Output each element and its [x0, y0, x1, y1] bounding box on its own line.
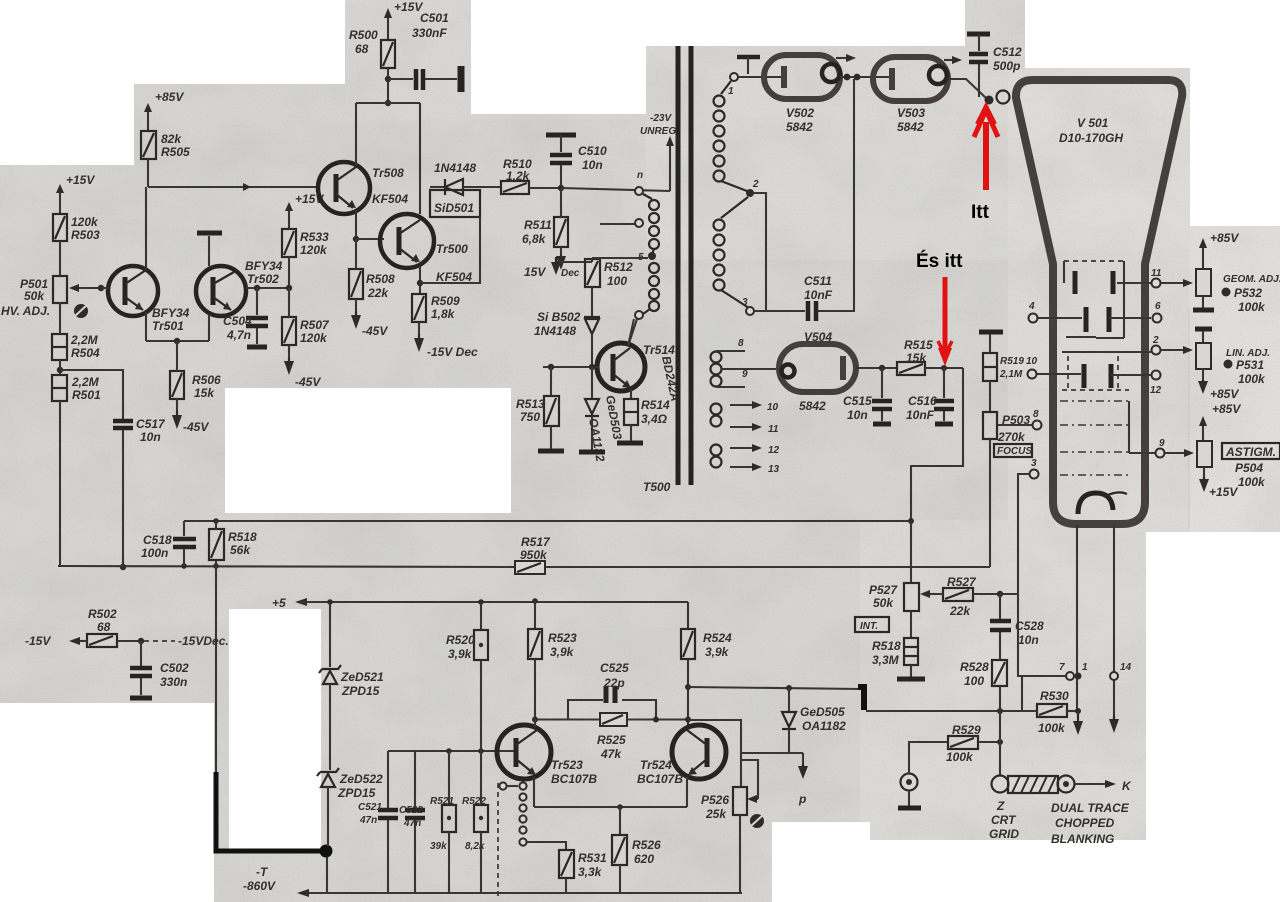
- svg-text:10nF: 10nF: [906, 408, 935, 422]
- node branch to C517: [57, 367, 123, 419]
- potentiometer P501: [1, 276, 101, 318]
- labels Z CRT GRID: [989, 799, 1019, 841]
- svg-text:C512: C512: [993, 45, 1022, 59]
- winding 8/9: [711, 338, 780, 387]
- SiD501 label box and loop wire: [420, 190, 480, 283]
- pin 1 node: [1075, 662, 1089, 680]
- winding right lower: [714, 197, 750, 308]
- wire V504 output: [856, 367, 897, 369]
- svg-text:-15V: -15V: [25, 634, 51, 648]
- svg-text:P527: P527: [869, 583, 898, 597]
- node and feed wires to Tr508/Tr500: [356, 100, 420, 214]
- capacitor C517: [113, 417, 166, 570]
- svg-text:R517: R517: [521, 535, 551, 549]
- svg-text:C521: C521: [358, 802, 382, 813]
- emitter bus + resistor R526: [534, 804, 687, 893]
- svg-text:R529: R529: [952, 723, 981, 737]
- svg-text:ZeD521: ZeD521: [340, 670, 384, 684]
- resistor R502 68: [25, 607, 229, 648]
- svg-text:R525: R525: [597, 733, 626, 747]
- potentiometer P531: [1196, 343, 1270, 401]
- svg-text:R514: R514: [641, 398, 670, 412]
- svg-text:22p: 22p: [603, 676, 625, 690]
- svg-text:Tr501: Tr501: [152, 319, 184, 333]
- transformer T500 core: [643, 46, 691, 494]
- svg-text:P503: P503: [1002, 413, 1030, 427]
- svg-text:68: 68: [97, 620, 111, 634]
- resistor R512: [585, 259, 633, 317]
- svg-text:39k: 39k: [430, 841, 447, 852]
- base rail of multivibrator: [388, 748, 516, 754]
- resistor R520: [446, 599, 488, 805]
- svg-text:10: 10: [1026, 356, 1038, 367]
- svg-text:3: 3: [742, 297, 748, 308]
- focus electrodes dash-dot: [1060, 401, 1129, 475]
- capacitor between P532/P531: [1193, 296, 1214, 343]
- svg-text:SiD501: SiD501: [434, 201, 474, 215]
- svg-text:47k: 47k: [600, 747, 622, 761]
- svg-text:V 501: V 501: [1077, 116, 1109, 130]
- winding tap 2nd: [600, 219, 643, 227]
- svg-text:Tr523: Tr523: [551, 758, 583, 772]
- svg-text:R523: R523: [548, 631, 577, 645]
- svg-text:10n: 10n: [582, 158, 603, 172]
- svg-text:13: 13: [768, 464, 780, 475]
- svg-text:2,2M: 2,2M: [71, 375, 100, 389]
- input terminal + resistor R529: [898, 723, 1003, 808]
- bottom bus -860V: [297, 889, 742, 897]
- svg-text:11: 11: [768, 424, 779, 435]
- svg-text:22k: 22k: [949, 604, 971, 618]
- wire +85V bus: [148, 183, 318, 191]
- resistor R527 22k: [936, 575, 1000, 618]
- pin 2 wire: [1062, 335, 1193, 355]
- svg-text:12: 12: [768, 445, 780, 456]
- svg-text:9: 9: [1159, 438, 1165, 449]
- svg-text:C528: C528: [1015, 619, 1044, 633]
- CRT gun arc: [1078, 492, 1127, 514]
- svg-text:R501: R501: [72, 388, 101, 402]
- node 5: [592, 252, 656, 263]
- svg-text:4: 4: [1028, 301, 1035, 312]
- svg-text:Dec: Dec: [561, 268, 580, 279]
- capacitor C504: [223, 285, 268, 347]
- zener ZeD522 ZPD15: [317, 768, 383, 893]
- svg-text:V502: V502: [786, 106, 814, 120]
- power -23V UNREG: [640, 113, 679, 191]
- svg-text:R502: R502: [88, 607, 117, 621]
- wire to p output: [741, 753, 808, 806]
- diode GeD505 OA1182: [782, 685, 846, 753]
- svg-text:C501: C501: [420, 11, 449, 25]
- svg-text:5842: 5842: [897, 120, 924, 134]
- svg-text:R521: R521: [430, 796, 454, 807]
- svg-text:R533: R533: [300, 230, 329, 244]
- svg-text:Tr500: Tr500: [436, 242, 468, 256]
- pin 11: [1117, 268, 1193, 288]
- node R527/C528: [997, 591, 1018, 597]
- pin 7: [1018, 662, 1074, 680]
- svg-text:100k: 100k: [1038, 721, 1066, 735]
- pin 9: [1129, 401, 1194, 458]
- terminal bar above R519: [979, 332, 1003, 353]
- label És itt: [916, 250, 963, 272]
- transistor Tr500: [380, 214, 472, 294]
- terminal bar right of C501: [458, 66, 465, 92]
- diode GeD503 OA1182: [585, 364, 625, 463]
- svg-text:50k: 50k: [24, 289, 45, 303]
- resistor R508: [349, 236, 395, 338]
- svg-text:BFY34: BFY34: [152, 306, 190, 320]
- FOCUS label box: [994, 444, 1032, 457]
- resistor R528 100: [960, 660, 1007, 711]
- capacitor C512: [967, 34, 1022, 97]
- collector link to P526: [685, 717, 741, 788]
- svg-text:R515: R515: [904, 338, 933, 352]
- capacitor C521: [358, 751, 398, 893]
- resistor R501 2,2M: [52, 360, 101, 566]
- resistor R530: [1037, 689, 1083, 735]
- svg-text:C518: C518: [143, 533, 172, 547]
- capacitor C502: [130, 641, 189, 698]
- capacitor C528: [990, 594, 1044, 660]
- svg-text:P504: P504: [1235, 461, 1263, 475]
- resistor R511: [522, 185, 568, 270]
- svg-text:12: 12: [1150, 385, 1162, 396]
- wire V503 to C512 node: [948, 79, 986, 98]
- transistor Tr508: [318, 162, 408, 239]
- svg-text:1,8k: 1,8k: [431, 307, 456, 321]
- potentiometer P526: [701, 760, 758, 893]
- transistor Tr524: [637, 725, 726, 807]
- pin 12: [1150, 371, 1162, 397]
- pin 6: [1153, 301, 1162, 323]
- CRT V501 envelope: [1016, 80, 1182, 524]
- power +15V left: [56, 173, 95, 214]
- resistor R524: [681, 602, 732, 726]
- svg-text:Tr502: Tr502: [247, 272, 279, 286]
- svg-text:C515: C515: [843, 394, 872, 408]
- svg-text:C522: C522: [399, 805, 423, 816]
- svg-text:C516: C516: [908, 394, 937, 408]
- svg-text:R527: R527: [947, 575, 977, 589]
- red arrow Itt: [974, 106, 998, 190]
- capacitor C522: [399, 751, 425, 893]
- svg-text:CRT: CRT: [991, 813, 1017, 827]
- svg-text:47n: 47n: [359, 815, 377, 826]
- potentiometer P532: [1196, 269, 1280, 314]
- plates pins 10/12 (dashed): [1036, 356, 1151, 390]
- svg-text:n: n: [637, 170, 643, 181]
- capacitor C525 22p: [568, 661, 656, 719]
- svg-text:R520: R520: [446, 633, 475, 647]
- svg-text:120k: 120k: [71, 215, 99, 229]
- resistor R519 2,1M: [983, 353, 1024, 412]
- svg-text:10nF: 10nF: [804, 288, 833, 302]
- svg-text:T500: T500: [643, 480, 671, 494]
- svg-text:+15V: +15V: [1209, 485, 1238, 499]
- collector rail to GeD505: [685, 684, 860, 690]
- svg-text:DUAL TRACE: DUAL TRACE: [1051, 801, 1130, 815]
- svg-text:+5: +5: [272, 596, 286, 610]
- zener ZeD521 ZPD15: [319, 599, 384, 770]
- svg-text:-15VDec.: -15VDec.: [178, 634, 229, 648]
- svg-text:-45V: -45V: [295, 375, 321, 389]
- svg-text:330n: 330n: [160, 675, 187, 689]
- svg-text:GRID: GRID: [989, 827, 1019, 841]
- svg-text:ZPD15: ZPD15: [341, 684, 380, 698]
- diode SiD501 1N4148: [430, 161, 501, 195]
- transistor Tr514: [543, 319, 682, 403]
- svg-text:330nF: 330nF: [412, 26, 447, 40]
- svg-text:6,8k: 6,8k: [522, 232, 547, 246]
- resistor R504 2,2M: [52, 302, 100, 360]
- svg-text:15k: 15k: [194, 386, 215, 400]
- resistor R523: [528, 598, 577, 719]
- svg-text:56k: 56k: [230, 543, 251, 557]
- svg-text:KF504: KF504: [436, 270, 472, 284]
- wire V502-V503: [840, 74, 889, 81]
- svg-text:R504: R504: [71, 346, 100, 360]
- svg-text:R513: R513: [516, 397, 545, 411]
- svg-text:FOCUS: FOCUS: [997, 446, 1032, 457]
- svg-text:V503: V503: [897, 106, 925, 120]
- node 3: [742, 297, 754, 315]
- svg-text:INT.: INT.: [860, 621, 878, 632]
- svg-text:C511: C511: [804, 274, 832, 288]
- resistor R533: [282, 192, 329, 288]
- svg-text:C517: C517: [136, 417, 166, 431]
- grid arrow V502: [836, 54, 856, 62]
- svg-text:ZPD15: ZPD15: [337, 786, 376, 800]
- svg-text:Tr524: Tr524: [640, 758, 672, 772]
- transistor Tr501: [98, 187, 190, 341]
- svg-text:3,4Ω: 3,4Ω: [641, 412, 668, 426]
- ground R513: [538, 449, 564, 454]
- resistor R500: [349, 28, 395, 103]
- pin 14: [1110, 662, 1132, 680]
- svg-text:2: 2: [752, 179, 759, 190]
- ground R518b: [897, 677, 925, 682]
- svg-text:8: 8: [1033, 409, 1039, 420]
- svg-text:8: 8: [738, 338, 744, 349]
- svg-text:R526: R526: [632, 838, 661, 852]
- svg-text:100k: 100k: [1238, 475, 1266, 489]
- svg-text:100n: 100n: [141, 546, 168, 560]
- resistor R515: [897, 338, 963, 375]
- screwdriver adjust dot P526: [750, 814, 764, 828]
- svg-text:6: 6: [1155, 301, 1161, 312]
- thick corner mark: [858, 687, 864, 710]
- capacitor C515: [843, 365, 892, 424]
- svg-text:BFY34: BFY34: [245, 259, 283, 273]
- winding tap n: [635, 170, 643, 195]
- resistor R522: [462, 796, 488, 893]
- svg-text:R507: R507: [300, 318, 330, 332]
- svg-text:120k: 120k: [300, 331, 328, 345]
- svg-text:10: 10: [767, 402, 779, 413]
- ground GeD503: [579, 450, 605, 455]
- resistor R518 56k: [209, 521, 257, 772]
- svg-text:Z: Z: [996, 799, 1005, 813]
- svg-text:2: 2: [1152, 335, 1159, 346]
- tube V503: [873, 57, 948, 134]
- winding right upper: [714, 81, 748, 191]
- connector pins column: [498, 782, 527, 897]
- svg-text:R509: R509: [431, 294, 460, 308]
- svg-text:D10-170GH: D10-170GH: [1059, 131, 1123, 145]
- resistor R513: [516, 364, 559, 449]
- svg-text:2,2M: 2,2M: [70, 333, 99, 347]
- svg-text:ZeD522: ZeD522: [339, 772, 383, 786]
- svg-text:3,9k: 3,9k: [550, 645, 575, 659]
- svg-text:10n: 10n: [140, 430, 161, 444]
- svg-text:Itt: Itt: [971, 202, 990, 223]
- svg-text:4,7n: 4,7n: [226, 328, 251, 342]
- resistor R521: [430, 751, 456, 893]
- svg-text:P526: P526: [701, 793, 729, 807]
- power +15V top: [384, 0, 423, 40]
- potentiometer P503 FOCUS: [983, 412, 1030, 567]
- svg-text:270k: 270k: [997, 430, 1026, 444]
- svg-text:100k: 100k: [1238, 372, 1266, 386]
- bus line upper: [184, 518, 914, 524]
- svg-text:1,2k: 1,2k: [506, 169, 531, 183]
- potentiometer P504 ASTIGM: [1197, 441, 1280, 499]
- power 15V Dec into R512: [524, 257, 592, 279]
- svg-text:R503: R503: [71, 228, 100, 242]
- svg-text:8,2k: 8,2k: [465, 841, 485, 852]
- tube V502: [764, 55, 840, 134]
- svg-text:P532: P532: [1234, 286, 1262, 300]
- svg-text:3,9k: 3,9k: [448, 647, 473, 661]
- svg-text:14: 14: [1120, 662, 1132, 673]
- transistor Tr523: [497, 719, 597, 807]
- svg-text:1: 1: [1082, 662, 1088, 673]
- power +85V geom: [1199, 231, 1239, 269]
- wire to winding tap n: [561, 188, 670, 191]
- svg-text:15V: 15V: [524, 265, 546, 279]
- svg-text:+85V: +85V: [1212, 402, 1241, 416]
- svg-text:1N4148: 1N4148: [534, 324, 576, 338]
- svg-text:R519: R519: [1000, 356, 1024, 367]
- svg-text:620: 620: [634, 852, 654, 866]
- svg-text:C510: C510: [578, 144, 607, 158]
- svg-text:950k: 950k: [520, 548, 548, 562]
- resistor R509 1,8k: [412, 280, 478, 359]
- svg-text:Si B502: Si B502: [537, 310, 581, 324]
- winding 10-13 taps: [711, 401, 780, 475]
- svg-text:+85V: +85V: [155, 90, 184, 104]
- blanking rail: [866, 677, 1037, 714]
- svg-text:100k: 100k: [946, 750, 974, 764]
- svg-text:2,1M: 2,1M: [999, 369, 1023, 380]
- INT. label box: [855, 617, 889, 632]
- transistor Tr502: [196, 233, 291, 341]
- svg-text:R512: R512: [604, 260, 633, 274]
- winding left lower: [643, 263, 659, 314]
- resistor R518b 3,3M: [872, 638, 918, 677]
- winding bottom tap to Tr514: [628, 311, 643, 346]
- white scan gaps: [0, 0, 345, 84]
- svg-text:7: 7: [1059, 662, 1065, 673]
- svg-text:+85V: +85V: [1210, 231, 1239, 245]
- power +85V: [144, 90, 184, 131]
- svg-text:CHOPPED: CHOPPED: [1055, 816, 1115, 830]
- svg-text:UNREG.: UNREG.: [640, 126, 679, 137]
- resistor R510: [501, 157, 561, 194]
- node at És itt: [941, 365, 947, 371]
- svg-text:82k: 82k: [161, 132, 182, 146]
- svg-text:100k: 100k: [1238, 300, 1266, 314]
- svg-text:-860V: -860V: [243, 879, 276, 893]
- svg-text:-23V: -23V: [650, 113, 672, 124]
- node 1 + terminal: [728, 57, 781, 97]
- deflection plates top (dashed box): [1064, 261, 1124, 338]
- pin 8: [997, 409, 1042, 430]
- svg-text:R511: R511: [524, 218, 552, 232]
- svg-text:C502: C502: [160, 661, 189, 675]
- svg-text:750: 750: [520, 410, 540, 424]
- svg-text:-T: -T: [256, 865, 269, 879]
- svg-text:10n: 10n: [847, 408, 868, 422]
- labels DUAL TRACE CHOPPED BLANKING: [1051, 801, 1130, 846]
- label Itt: [971, 202, 990, 223]
- pin 10: [1026, 356, 1038, 379]
- svg-text:47n: 47n: [403, 818, 421, 829]
- svg-text:GEOM. ADJ.: GEOM. ADJ.: [1223, 274, 1280, 285]
- svg-text:22k: 22k: [367, 286, 389, 300]
- power +85V astigm: [1199, 402, 1241, 441]
- svg-text:C504: C504: [223, 314, 252, 328]
- svg-text:100: 100: [607, 274, 627, 288]
- svg-text:11: 11: [1151, 268, 1162, 279]
- svg-text:3,3k: 3,3k: [578, 865, 603, 879]
- winding left upper: [643, 194, 659, 254]
- svg-text:R522: R522: [462, 796, 486, 807]
- red arrow És itt: [938, 277, 952, 366]
- svg-text:100: 100: [964, 674, 984, 688]
- svg-text:OA1182: OA1182: [802, 719, 846, 733]
- thick ground return wire: [216, 772, 333, 858]
- svg-text:R518: R518: [228, 530, 257, 544]
- pin 4: [1028, 301, 1038, 323]
- resistor R507: [282, 285, 330, 389]
- wire to intensity bus: [911, 368, 963, 521]
- svg-text:3,3M: 3,3M: [872, 653, 900, 667]
- CRT base lead right: [1109, 524, 1119, 733]
- emitter bus Tr501/Tr502 + resistor R506: [146, 338, 221, 434]
- label -T -860V: [243, 865, 276, 893]
- CRT base lead left: [1076, 524, 1078, 711]
- svg-text:GeD505: GeD505: [800, 705, 845, 719]
- svg-text:500p: 500p: [993, 59, 1020, 73]
- tube V504: [779, 330, 856, 413]
- pin 3: [1018, 458, 1039, 677]
- bus line lower: [58, 563, 990, 569]
- +5 supply rail: [272, 596, 688, 610]
- svg-text:-45V: -45V: [183, 420, 209, 434]
- svg-text:R518: R518: [872, 639, 901, 653]
- resistor R525 47k: [532, 713, 688, 761]
- svg-text:3: 3: [1031, 458, 1037, 469]
- svg-text:R508: R508: [366, 272, 395, 286]
- svg-text:R531: R531: [578, 851, 607, 865]
- capacitor C501: [385, 11, 457, 90]
- resistor R517 950k: [515, 535, 551, 574]
- svg-text:ASTIGM.: ASTIGM.: [1225, 445, 1276, 459]
- potentiometer P527: [869, 521, 936, 638]
